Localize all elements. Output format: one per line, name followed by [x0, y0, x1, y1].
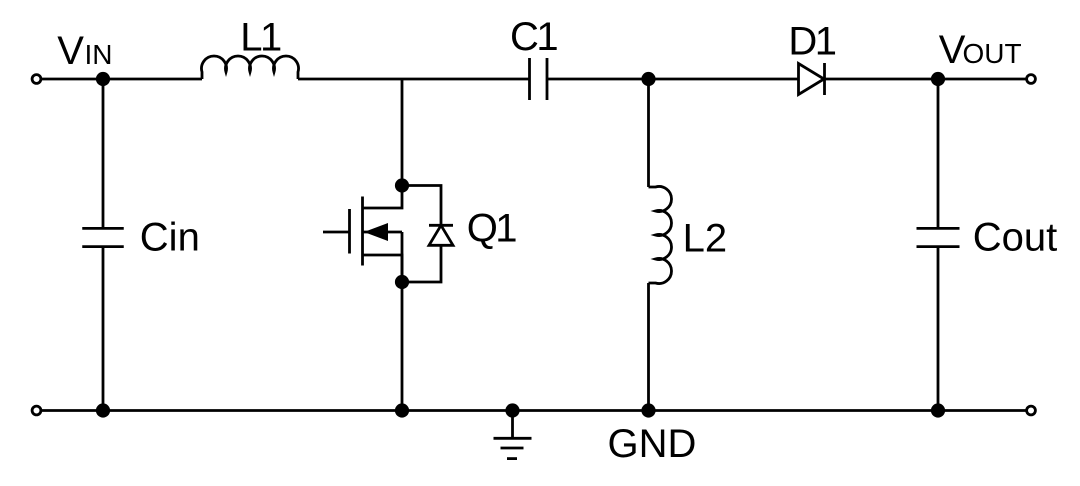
- svg-text:L1: L1: [240, 16, 281, 60]
- transistor Q1 source lead: [363, 255, 403, 282]
- capacitor Cin plates: [82, 228, 124, 246]
- wire L2 node to D1 anode: [649, 78, 799, 81]
- svg-text:D1: D1: [788, 19, 835, 63]
- terminal ground right (open circle): [1027, 406, 1036, 415]
- transistor Q1 body lead with arrow: [363, 223, 403, 241]
- wire Q1 body diode lower: [402, 245, 441, 282]
- wire input node down to Cin: [102, 79, 105, 228]
- wire C1 to L2 node: [547, 78, 649, 81]
- wire L2 node down to L2: [647, 79, 650, 187]
- svg-text:Cin: Cin: [140, 215, 200, 259]
- junction node C1/L2/D1: [641, 72, 655, 86]
- junction ground rail at Cin: [96, 403, 110, 417]
- junction ground rail at Cout: [931, 403, 945, 417]
- svg-text:OUT: OUT: [963, 38, 1022, 69]
- junction input node (VIN / Cin / L1): [96, 72, 110, 86]
- svg-text:GND: GND: [608, 422, 697, 466]
- wire output node down to Cout: [937, 79, 940, 228]
- transistor Q1 channel bar: [361, 197, 364, 266]
- svg-text:V: V: [57, 29, 84, 73]
- terminal VOUT (open circle): [1027, 75, 1036, 84]
- transistor Q1 gate bar: [348, 209, 351, 254]
- svg-text:Q1: Q1: [467, 207, 517, 251]
- junction Q1 drain / body-diode cathode: [395, 178, 409, 192]
- body diode of Q1 (cathode bar): [429, 224, 453, 227]
- wire Q1 source to ground rail: [401, 282, 404, 411]
- junction output node (D1 / Cout / VOUT): [931, 72, 945, 86]
- inductor L2: [649, 186, 672, 283]
- wire input node to L1: [103, 78, 202, 81]
- capacitor C1 plates: [530, 58, 548, 100]
- ground symbol: [494, 411, 532, 459]
- transistor Q1 (N-MOSFET) gate lead: [323, 231, 350, 234]
- diode D1: [799, 63, 825, 95]
- transistor Q1 drain lead: [363, 186, 403, 209]
- wire Cout to ground rail: [937, 247, 940, 411]
- wire L2 to ground rail: [647, 283, 650, 411]
- wire Q1 body diode upper: [402, 186, 441, 226]
- body diode of Q1 (triangle): [429, 225, 453, 245]
- wire drain node down to Q1 drain junction: [401, 79, 404, 186]
- wire D1 cathode to output node: [825, 78, 1027, 81]
- wire ground rail: [41, 409, 1027, 412]
- svg-text:Cout: Cout: [973, 216, 1058, 260]
- label VOUT: [939, 28, 1022, 72]
- wire L1 to drain node: [298, 78, 530, 81]
- label VIN: [57, 29, 112, 73]
- terminal VIN (open circle): [32, 75, 41, 84]
- capacitor Cout plates: [917, 228, 960, 246]
- junction ground rail at L2: [641, 403, 655, 417]
- terminal ground left (open circle): [32, 406, 41, 415]
- svg-text:IN: IN: [85, 39, 113, 70]
- wire Cin to ground rail: [102, 247, 105, 411]
- svg-text:L2: L2: [683, 216, 728, 260]
- inductor L1: [202, 56, 299, 79]
- junction Q1 source / body-diode anode: [395, 275, 409, 289]
- wire VIN terminal to input node: [41, 78, 103, 81]
- junction ground rail at ground symbol: [505, 403, 519, 417]
- wire Q1 body/source vertical: [401, 232, 404, 282]
- svg-text:C1: C1: [510, 15, 557, 59]
- junction ground rail at Q1: [395, 403, 409, 417]
